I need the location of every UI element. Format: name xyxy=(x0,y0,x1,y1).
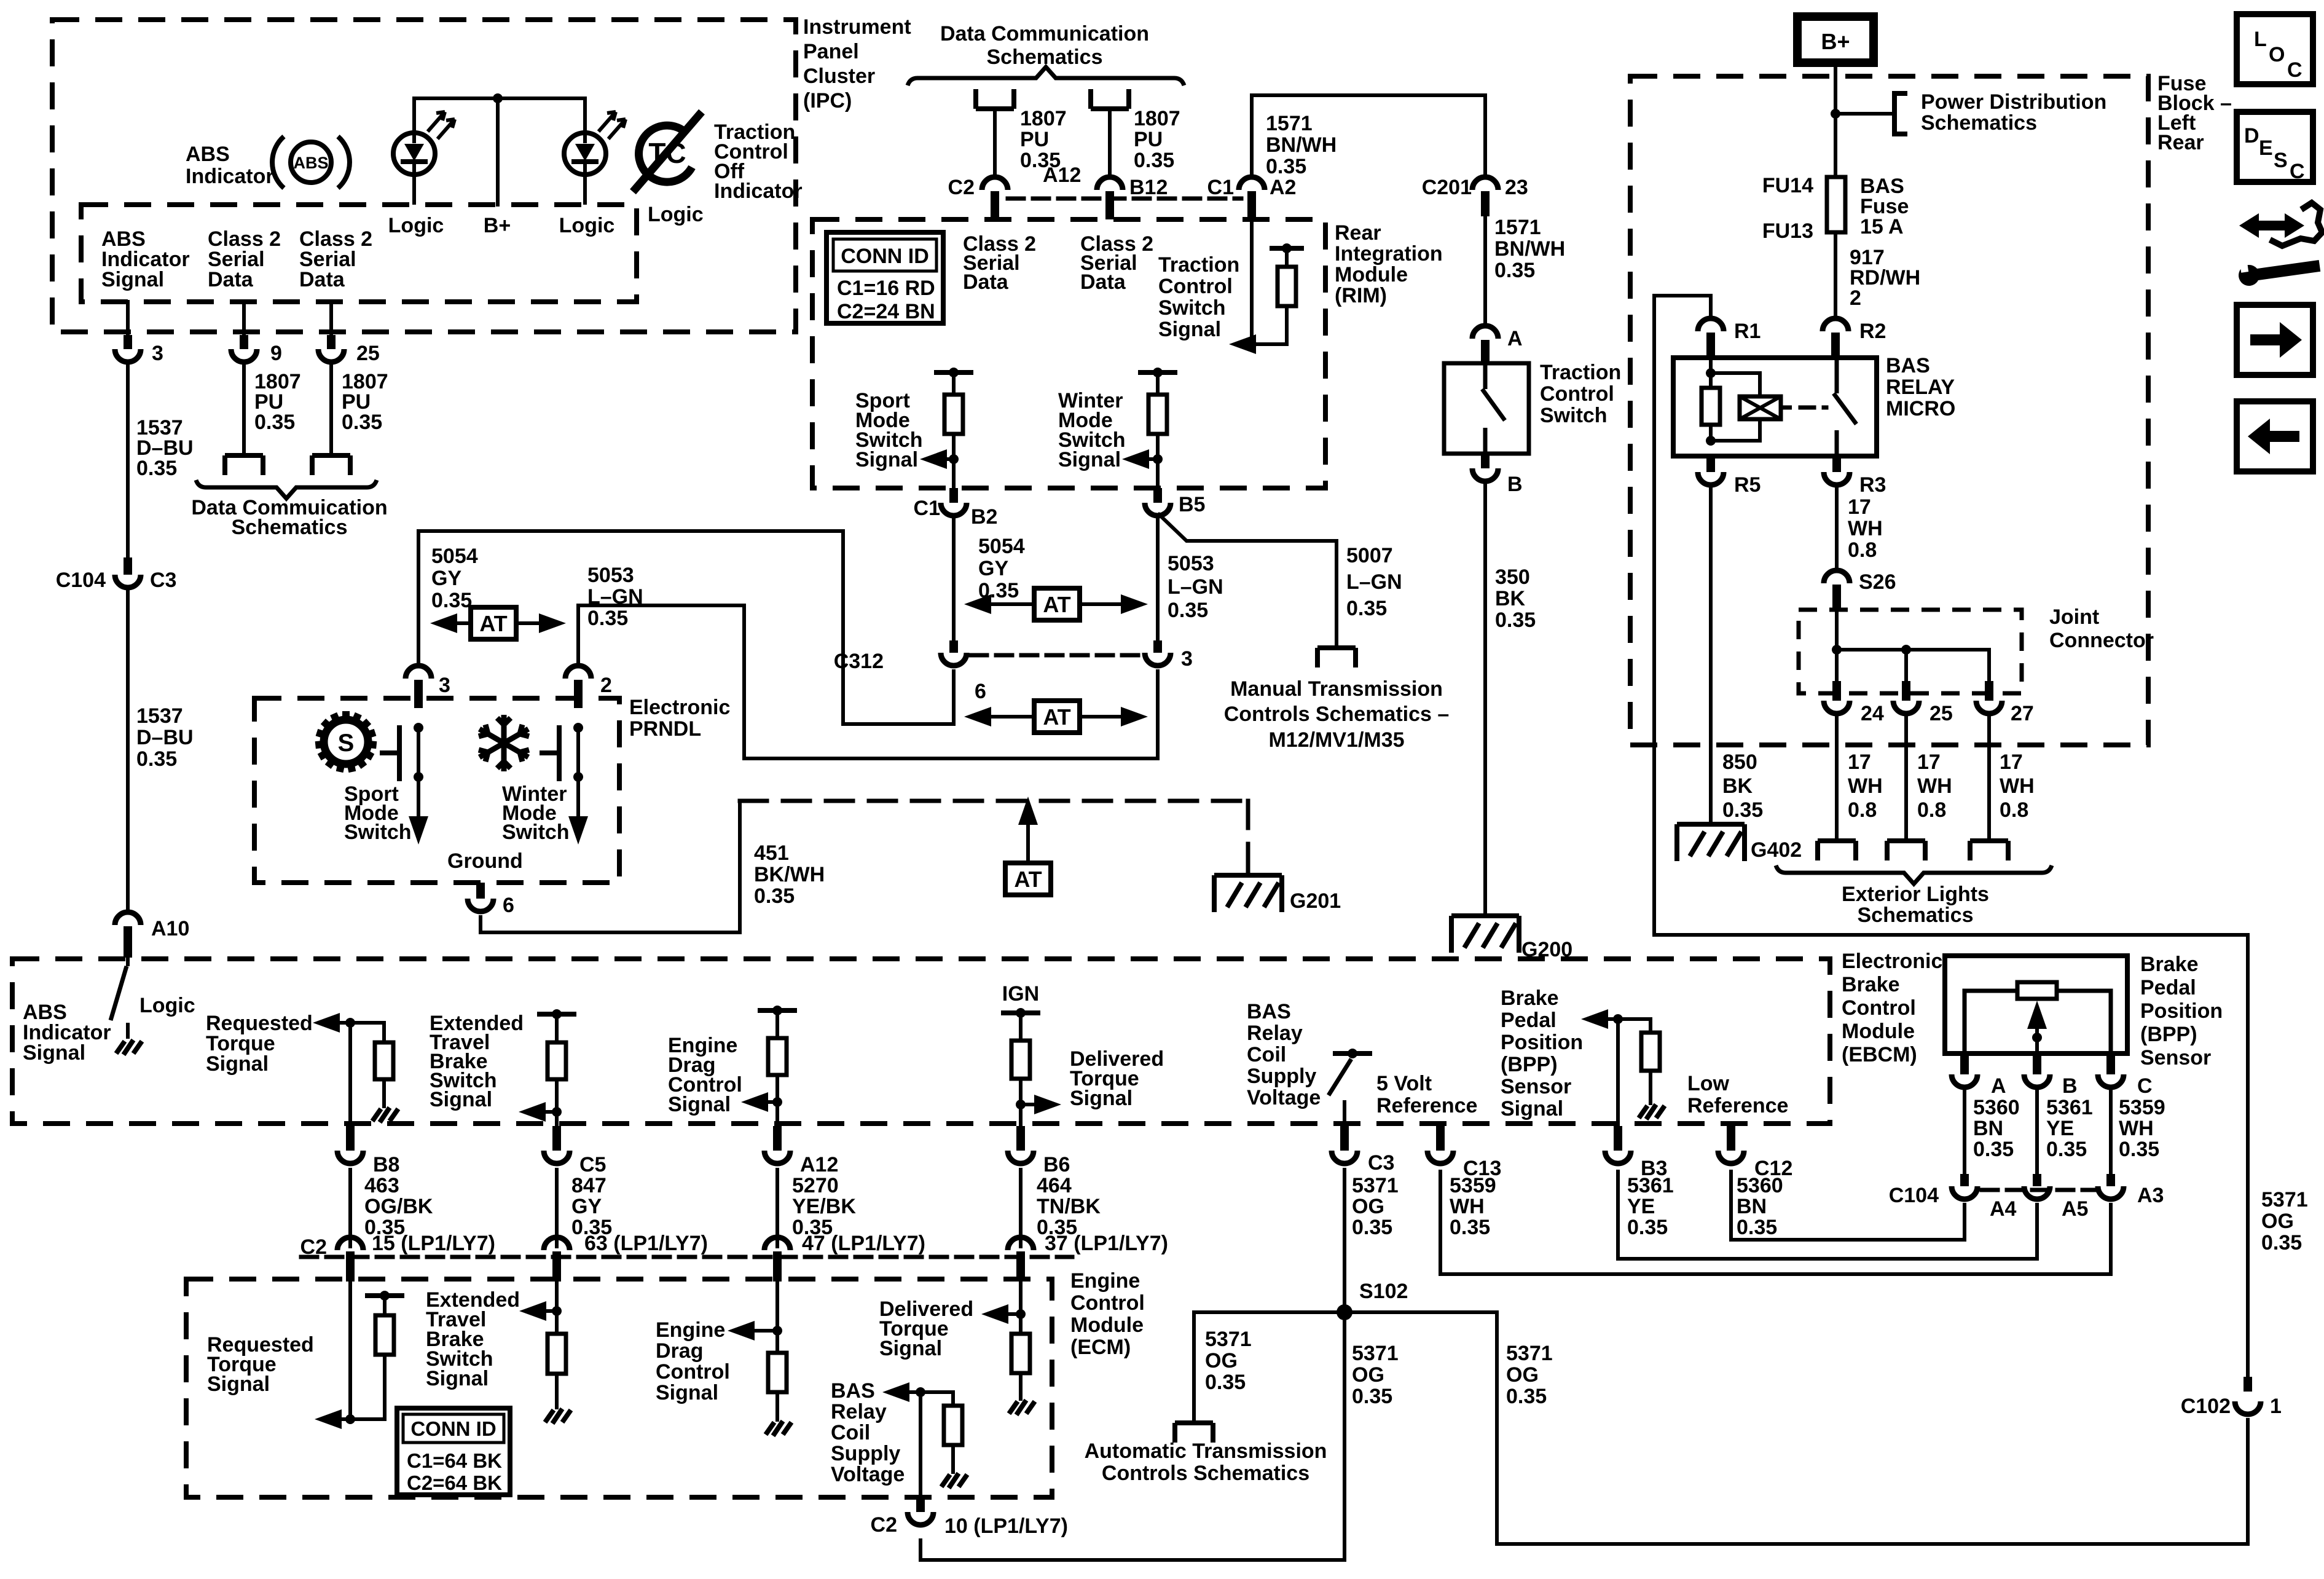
svg-text:TN/BK: TN/BK xyxy=(1037,1195,1101,1218)
svg-text:OG: OG xyxy=(1352,1195,1384,1218)
arrow requested torque (ECM) xyxy=(315,1409,342,1429)
svg-text:G201: G201 xyxy=(1290,889,1341,913)
wire 5053 L-GN 0.35 C312-3 to PRNDL pin 2 xyxy=(578,605,1158,758)
wire 5371 OG C102 up to relay R1 net xyxy=(2246,935,2250,1377)
svg-text:Switch: Switch xyxy=(502,821,570,844)
svg-text:Logic: Logic xyxy=(139,994,195,1017)
pull-up rail tick sport mode xyxy=(936,370,971,375)
svg-text:Signal: Signal xyxy=(430,1088,492,1111)
icon box arrow right xyxy=(2237,305,2313,375)
svg-text:B6: B6 xyxy=(1043,1153,1070,1176)
svg-text:(IPC): (IPC) xyxy=(803,89,852,112)
svg-text:Signal: Signal xyxy=(206,1052,269,1076)
AT applicability box middle lower xyxy=(1034,701,1080,733)
svg-text:ABS: ABS xyxy=(186,143,230,166)
module box: Engine Control Module (ECM) dashed outline xyxy=(186,1279,1052,1497)
resistor winter mode switch signal xyxy=(1156,372,1160,395)
brace: Data Communication Schematics (top) xyxy=(908,67,1184,85)
svg-text:WH: WH xyxy=(2000,774,2035,798)
svg-text:AT: AT xyxy=(1043,592,1070,617)
svg-text:A12: A12 xyxy=(1043,163,1081,187)
wire: B+ stub into IPC connector xyxy=(496,98,500,205)
svg-text:WH: WH xyxy=(1848,517,1883,540)
connector IPC pin 25 xyxy=(327,335,336,349)
svg-text:RELAY: RELAY xyxy=(1886,376,1955,399)
svg-text:PU: PU xyxy=(1020,128,1049,151)
svg-text:BK: BK xyxy=(1722,774,1753,798)
svg-text:0.35: 0.35 xyxy=(1506,1385,1547,1408)
svg-text:L–GN: L–GN xyxy=(587,585,643,608)
in-line connector dashed link ECM C1/C2 xyxy=(301,1255,1072,1259)
svg-text:24: 24 xyxy=(1861,702,1884,725)
svg-text:(BPP): (BPP) xyxy=(1501,1053,1558,1076)
arrow extended travel (ECM) xyxy=(519,1301,546,1321)
signal ground BPP sensor signal xyxy=(1639,1105,1665,1119)
svg-text:Reference: Reference xyxy=(1687,1094,1788,1117)
svg-text:BK/WH: BK/WH xyxy=(754,863,825,886)
connector relay pin R3 xyxy=(1832,456,1841,472)
connector pin 27 xyxy=(1985,681,1993,701)
connector C102 pin 1 xyxy=(2244,1377,2252,1392)
svg-text:Panel: Panel xyxy=(803,40,859,63)
wire: class2 serial data pin 25 drop xyxy=(329,302,333,335)
svg-text:C3: C3 xyxy=(150,569,176,592)
CONN ID table (ECM) xyxy=(397,1408,510,1495)
arrow BAS relay coil supply (ECM) xyxy=(882,1382,909,1402)
wire 5371 OG S102 to automatic transmission branch xyxy=(1194,1312,1345,1423)
svg-text:5270: 5270 xyxy=(792,1174,839,1197)
wire A12 to ECM pin 47 xyxy=(775,1170,779,1246)
wire B+ into fuse block xyxy=(1834,63,1837,178)
connector BPP pin A xyxy=(1960,1053,1969,1074)
pull-up rail tick winter mode xyxy=(1140,370,1175,375)
resistor BAS relay coil (ECM) xyxy=(951,1392,955,1406)
svg-text:Signal: Signal xyxy=(879,1337,942,1360)
svg-text:5053: 5053 xyxy=(1168,552,1214,575)
switch contacts inside traction control switch xyxy=(1482,363,1505,454)
wire 917 RD/WH 2 fuse to relay xyxy=(1834,232,1837,318)
arrow requested torque signal (EBCM) xyxy=(313,1013,340,1033)
svg-text:C: C xyxy=(2290,160,2305,183)
svg-text:Controls Schematics: Controls Schematics xyxy=(1102,1462,1309,1485)
svg-text:451: 451 xyxy=(754,841,789,865)
svg-text:10 (LP1/LY7): 10 (LP1/LY7) xyxy=(944,1514,1068,1538)
svg-text:Position: Position xyxy=(1501,1031,1583,1054)
relay mechanical link dashes xyxy=(1800,406,1826,410)
wire 1537 D-BU 0.35 upper segment xyxy=(126,365,130,557)
svg-text:5361: 5361 xyxy=(1627,1174,1674,1197)
rail tick requested torque (ECM) xyxy=(367,1293,402,1298)
svg-text:5361: 5361 xyxy=(2046,1096,2093,1119)
node extended travel junction (ECM) xyxy=(552,1306,562,1316)
svg-text:PU: PU xyxy=(1134,128,1163,151)
node requested torque junction (EBCM) xyxy=(345,1018,355,1028)
arrow engine drag (EBCM) xyxy=(741,1092,768,1112)
svg-text:O: O xyxy=(2269,43,2285,66)
svg-text:27: 27 xyxy=(2011,702,2034,725)
wire: relay coil supply from R1 net xyxy=(1654,296,1711,935)
svg-text:15 A: 15 A xyxy=(1860,215,1904,238)
svg-text:5359: 5359 xyxy=(1450,1174,1496,1197)
wire 5361 YE B3 to A5 xyxy=(1618,1170,2037,1259)
LED indicator lamp right xyxy=(564,98,626,205)
svg-text:C102: C102 xyxy=(2181,1395,2231,1418)
svg-text:BN/WH: BN/WH xyxy=(1266,133,1337,157)
svg-text:17: 17 xyxy=(1917,750,1941,774)
svg-text:Pedal: Pedal xyxy=(2140,976,2196,999)
connector C1 pin B2 (RIM to harness) xyxy=(949,488,958,503)
svg-text:5054: 5054 xyxy=(431,545,478,568)
svg-text:Electronic: Electronic xyxy=(629,696,730,719)
connector C2 pin A12 xyxy=(982,177,1008,190)
svg-text:Logic: Logic xyxy=(388,214,444,237)
svg-text:Engine: Engine xyxy=(1070,1269,1140,1293)
svg-text:A12: A12 xyxy=(800,1153,838,1176)
signal ground for logic switch xyxy=(116,1040,142,1055)
svg-text:Control: Control xyxy=(1842,996,1916,1020)
connector S26 xyxy=(1824,570,1850,583)
connector IPC pin 9 xyxy=(240,335,248,349)
svg-text:Data: Data xyxy=(299,268,345,291)
svg-text:E: E xyxy=(2259,136,2273,160)
logic driver switch for ABS indicator xyxy=(111,958,128,1039)
svg-text:Voltage: Voltage xyxy=(1247,1086,1321,1109)
svg-text:0.35: 0.35 xyxy=(1627,1216,1668,1239)
brace: Data Commuication Schematics xyxy=(196,480,377,498)
svg-text:0.35: 0.35 xyxy=(136,457,177,480)
svg-text:M12/MV1/M35: M12/MV1/M35 xyxy=(1268,728,1404,752)
svg-text:3: 3 xyxy=(439,674,450,697)
svg-text:BN: BN xyxy=(1737,1195,1767,1218)
svg-text:0.35: 0.35 xyxy=(1266,155,1306,178)
resistor extended travel (ECM) xyxy=(555,1311,559,1334)
wire 5371 OG S102 right branch to C102 xyxy=(1345,1312,2248,1544)
arrow extended travel (EBCM) xyxy=(519,1102,546,1122)
double arrow AT (middle upper) xyxy=(964,594,1148,614)
connector EBCM pin C12 xyxy=(1727,1126,1735,1151)
arrow BPP sensor signal (EBCM) xyxy=(1581,1009,1608,1029)
svg-text:BAS: BAS xyxy=(831,1379,875,1403)
svg-text:CONN ID: CONN ID xyxy=(410,1417,496,1440)
svg-text:C1=64 BK: C1=64 BK xyxy=(407,1449,502,1472)
connector EBCM pin A12 xyxy=(773,1126,782,1151)
wire extended travel inside ECM xyxy=(555,1282,559,1310)
node requested torque junction (ECM) xyxy=(345,1414,355,1424)
wire to power distribution bracket xyxy=(1835,112,1894,116)
connector EBCM pin C5 xyxy=(552,1126,561,1151)
CONN ID table (RIM) xyxy=(826,232,943,323)
arrow sport mode switch signal xyxy=(920,449,947,469)
pull-down resistor requested torque (EBCM) xyxy=(382,1023,386,1042)
offpage connector exterior lights 2 xyxy=(1887,841,1925,860)
offpage bracket: Power Distribution Schematics xyxy=(1894,93,1907,134)
svg-text:A: A xyxy=(1507,327,1523,350)
wire 350 BK 0.35 to ground G200 xyxy=(1483,485,1487,916)
svg-text:Coil: Coil xyxy=(831,1421,870,1444)
svg-text:AT: AT xyxy=(1043,704,1070,730)
AT applicability box middle upper xyxy=(1034,588,1080,620)
wire: traction control switch signal inside RIM xyxy=(1250,219,1254,344)
svg-text:25: 25 xyxy=(1929,702,1953,725)
joint connector dashed box xyxy=(1799,610,2022,693)
connector C201 pin 23 xyxy=(1472,177,1498,190)
svg-text:D: D xyxy=(2244,124,2259,148)
svg-text:Module: Module xyxy=(1070,1313,1144,1337)
wire 850 BK 0.35 to G402 xyxy=(1709,489,1713,824)
svg-text:OG: OG xyxy=(2261,1210,2294,1233)
offpage connector to data communication schematics (pin 9) xyxy=(225,455,263,475)
connector EBCM pin C13 xyxy=(1436,1126,1445,1151)
svg-text:Cluster: Cluster xyxy=(803,65,875,88)
svg-text:0.35: 0.35 xyxy=(1737,1216,1777,1239)
svg-text:B5: B5 xyxy=(1179,493,1205,516)
connector PRNDL pin 6 ground xyxy=(476,883,485,899)
svg-text:Signal: Signal xyxy=(855,448,918,471)
wire delivered torque inside ECM xyxy=(1019,1282,1023,1334)
wire 451 BK/WH 0.35 to G201 xyxy=(481,801,740,932)
arrow winter mode switch signal xyxy=(1122,449,1149,469)
connector ECM C2 pin 15 xyxy=(337,1237,363,1250)
icon box DESC xyxy=(2237,112,2313,183)
svg-text:(BPP): (BPP) xyxy=(2140,1023,2197,1046)
resistor extended travel (EBCM) xyxy=(555,1014,559,1042)
wire: class2 serial data pin 9 drop xyxy=(242,302,246,335)
svg-text:0.35: 0.35 xyxy=(2046,1138,2087,1161)
svg-text:0.8: 0.8 xyxy=(1917,798,1946,822)
wire BPP signal to B3 xyxy=(1616,1019,1620,1126)
pull resistor BPP sensor signal xyxy=(1649,1019,1652,1033)
svg-text:OG: OG xyxy=(1205,1349,1238,1372)
svg-text:0.8: 0.8 xyxy=(1848,798,1877,822)
svg-text:B12: B12 xyxy=(1129,176,1168,199)
svg-text:Sensor: Sensor xyxy=(2140,1046,2211,1069)
svg-text:9: 9 xyxy=(270,342,282,365)
connector ECM C2 pin 10 xyxy=(916,1497,925,1512)
svg-text:C5: C5 xyxy=(579,1153,606,1176)
svg-text:1: 1 xyxy=(2270,1395,2282,1418)
svg-text:17: 17 xyxy=(1848,750,1871,774)
svg-text:1571: 1571 xyxy=(1266,112,1313,135)
svg-text:Signal: Signal xyxy=(1501,1097,1563,1120)
svg-text:Coil: Coil xyxy=(1247,1043,1286,1066)
svg-text:A10: A10 xyxy=(151,917,189,940)
svg-text:2: 2 xyxy=(1850,286,1861,310)
wire 5053 L-GN 0.35 B5 branch xyxy=(1156,519,1160,640)
in-line connector dashed link C2/A12 to B12 to C1/A2 xyxy=(1008,197,1241,201)
wire 1571 BN/WH 0.35 to C201 xyxy=(1483,95,1487,176)
wire drops to pins 24/25/27 xyxy=(1835,650,1839,681)
svg-text:Schematics: Schematics xyxy=(1921,111,2037,135)
wire 5360 BN C12 to A4 xyxy=(1731,1170,1965,1240)
svg-text:C104: C104 xyxy=(1889,1184,1939,1207)
arrow engine drag (ECM) xyxy=(728,1321,755,1341)
svg-text:Logic: Logic xyxy=(648,203,704,226)
pull-up rail tick extended travel (EBCM) xyxy=(540,1012,574,1017)
svg-text:Traction: Traction xyxy=(1540,361,1621,384)
svg-text:WH: WH xyxy=(1848,774,1883,798)
connector C104 pin A3 xyxy=(2106,1174,2115,1186)
node joint connector left xyxy=(1832,645,1842,655)
svg-text:B8: B8 xyxy=(373,1153,399,1176)
svg-text:Engine: Engine xyxy=(656,1318,725,1342)
svg-text:WH: WH xyxy=(1917,774,1952,798)
svg-text:5 Volt: 5 Volt xyxy=(1376,1072,1432,1095)
svg-text:D–BU: D–BU xyxy=(136,726,194,749)
svg-text:6: 6 xyxy=(503,894,514,917)
svg-text:5371: 5371 xyxy=(1352,1174,1399,1197)
svg-text:Rear: Rear xyxy=(2157,131,2204,154)
svg-text:Sensor: Sensor xyxy=(1501,1075,1571,1098)
svg-text:Controls Schematics –: Controls Schematics – xyxy=(1224,703,1450,726)
svg-text:0.35: 0.35 xyxy=(136,747,177,771)
wire 5360 BN pin A to C104-A4 xyxy=(1963,1091,1966,1174)
ground G201 xyxy=(1214,875,1282,912)
icon: winter mode snowflake symbol xyxy=(476,715,532,771)
module box: Instrument Panel Cluster (IPC) dashed outline xyxy=(52,20,796,332)
svg-text:464: 464 xyxy=(1037,1174,1072,1197)
relay internal: coil branch junctions xyxy=(1702,358,1760,446)
svg-text:(EBCM): (EBCM) xyxy=(1842,1043,1917,1066)
svg-text:Switch: Switch xyxy=(344,821,412,844)
connector EBCM pin B8 xyxy=(346,1126,355,1151)
component box: Traction Control Switch xyxy=(1444,363,1529,454)
node engine drag junction (EBCM) xyxy=(772,1097,782,1107)
svg-text:0.35: 0.35 xyxy=(1134,149,1174,172)
resistor engine drag (EBCM) xyxy=(775,1010,779,1038)
signal ground engine drag (ECM) xyxy=(766,1421,791,1436)
svg-text:0.35: 0.35 xyxy=(1346,597,1387,620)
svg-text:1537: 1537 xyxy=(136,704,183,728)
wire B6 to ECM pin 37 xyxy=(1019,1170,1023,1246)
svg-text:Logic: Logic xyxy=(559,214,615,237)
sport mode switch xyxy=(382,723,428,845)
offpage connector exterior lights 3 xyxy=(1970,841,2008,860)
connector ECM pin 47 xyxy=(764,1237,790,1250)
wire 5359 WH C13 to A3 xyxy=(1440,1170,2111,1274)
indicator lamp symbol: ABS telltale xyxy=(272,136,350,188)
svg-text:L: L xyxy=(2254,28,2267,51)
svg-text:37 (LP1/LY7): 37 (LP1/LY7) xyxy=(1045,1232,1168,1255)
wire 5054 GY 0.35 B2 to C312 xyxy=(952,519,956,640)
power feed B+ box xyxy=(1797,17,1874,63)
relay coil (crossed box) xyxy=(1740,396,1792,419)
svg-text:Signal: Signal xyxy=(1058,448,1121,471)
connector C104 pin A5 xyxy=(2033,1174,2041,1186)
svg-text:OG/BK: OG/BK xyxy=(364,1195,433,1218)
icon: diagnostic pointer with wrench xyxy=(2237,203,2322,287)
svg-text:Connector: Connector xyxy=(2049,629,2154,652)
node delivered torque junction (EBCM) xyxy=(1016,1100,1026,1109)
AT applicability box upper left xyxy=(471,607,516,639)
svg-text:BN/WH: BN/WH xyxy=(1494,237,1565,261)
svg-text:C: C xyxy=(2137,1074,2153,1098)
svg-text:A5: A5 xyxy=(2062,1197,2088,1221)
svg-text:Supply: Supply xyxy=(1247,1065,1316,1088)
arrow delivered torque (ECM) xyxy=(981,1304,1008,1324)
svg-text:C1=16 RD: C1=16 RD xyxy=(837,277,935,300)
wire relay R1 horizontal run xyxy=(1654,933,2248,937)
wire: ABS indicator signal out of IPC xyxy=(126,302,130,335)
module box: Electronic Brake Control Module (EBCM) dashed outline xyxy=(12,959,1830,1124)
connector EBCM pin A10 xyxy=(115,912,141,925)
wire BAS relay coil to C2 pin 10 xyxy=(919,1392,922,1497)
svg-text:BN: BN xyxy=(1973,1117,2003,1140)
svg-text:0.35: 0.35 xyxy=(1494,259,1535,282)
svg-text:OG: OG xyxy=(1506,1363,1539,1387)
svg-text:GY: GY xyxy=(978,557,1008,580)
svg-text:YE: YE xyxy=(2046,1117,2074,1140)
offpage connector from data bus (B12 side) xyxy=(1091,89,1129,109)
svg-text:S: S xyxy=(2274,149,2288,172)
offpage connector exterior lights 1 xyxy=(1818,841,1856,860)
svg-text:0.35: 0.35 xyxy=(1205,1371,1246,1394)
svg-text:5360: 5360 xyxy=(1737,1174,1783,1197)
connector C104 pin A4 xyxy=(1960,1174,1969,1186)
svg-text:Integration: Integration xyxy=(1335,242,1443,266)
wire 1807 PU 0.35 to B12 xyxy=(1108,109,1112,176)
svg-text:C2: C2 xyxy=(300,1235,327,1259)
svg-text:B2: B2 xyxy=(971,505,997,529)
svg-text:0.35: 0.35 xyxy=(254,411,295,434)
node BAS relay coil junction (ECM) xyxy=(916,1387,925,1397)
wire 1537 D-BU 0.35 lower segment xyxy=(126,591,130,911)
LED indicator lamp left xyxy=(393,98,455,205)
wire 5371 OG S102 down to ECM C2-10 xyxy=(921,1312,1345,1560)
connector EBCM pin B6 xyxy=(1016,1126,1025,1151)
svg-text:Automatic Transmission: Automatic Transmission xyxy=(1085,1439,1327,1463)
svg-text:0.35: 0.35 xyxy=(1495,608,1536,632)
svg-text:(RIM): (RIM) xyxy=(1335,284,1387,307)
svg-text:0.35: 0.35 xyxy=(754,884,795,908)
offpage connector to data communication schematics (pin 25) xyxy=(312,455,350,475)
svg-text:Module: Module xyxy=(1335,263,1408,286)
ground G402 xyxy=(1677,824,1745,861)
svg-text:0.35: 0.35 xyxy=(2119,1138,2159,1161)
svg-text:L–GN: L–GN xyxy=(1346,570,1402,594)
svg-text:5359: 5359 xyxy=(2119,1096,2165,1119)
svg-text:1807: 1807 xyxy=(1134,107,1180,130)
node BPP sensor signal junction xyxy=(1613,1014,1623,1024)
svg-text:0.35: 0.35 xyxy=(1352,1385,1392,1408)
connector EBCM pin B3 xyxy=(1614,1126,1622,1151)
svg-text:Signal: Signal xyxy=(1070,1087,1133,1110)
component box: BAS RELAY MICRO xyxy=(1673,358,1877,456)
svg-text:A4: A4 xyxy=(1990,1197,2017,1221)
svg-text:Relay: Relay xyxy=(831,1400,887,1423)
svg-text:C1: C1 xyxy=(914,497,940,520)
svg-text:R2: R2 xyxy=(1859,320,1886,343)
connector pin 24 xyxy=(1832,681,1841,701)
svg-text:3: 3 xyxy=(152,342,163,365)
svg-text:A2: A2 xyxy=(1270,176,1296,199)
svg-text:2: 2 xyxy=(600,674,612,697)
svg-text:C2=24 BN: C2=24 BN xyxy=(837,300,935,323)
wire 5361 YE pin B to C104-A5 xyxy=(2035,1091,2039,1174)
svg-text:Signal: Signal xyxy=(101,268,164,291)
svg-text:MICRO: MICRO xyxy=(1886,397,1955,420)
svg-text:Schematics: Schematics xyxy=(232,516,348,539)
icon box LOC xyxy=(2237,14,2313,84)
svg-text:Data: Data xyxy=(963,270,1009,294)
svg-text:Switch: Switch xyxy=(1158,296,1226,320)
in-line connector dashed link C104 xyxy=(1982,1188,2095,1192)
svg-text:FU14: FU14 xyxy=(1762,174,1813,197)
offpage connector automatic transmission xyxy=(1175,1423,1213,1443)
svg-text:C1: C1 xyxy=(1207,176,1234,199)
component box: Brake Pedal Position sensor xyxy=(1945,956,2127,1053)
wire 1571 BN/WH 0.35 horizontal run xyxy=(1252,93,1485,97)
relay switch contact xyxy=(1834,358,1856,456)
